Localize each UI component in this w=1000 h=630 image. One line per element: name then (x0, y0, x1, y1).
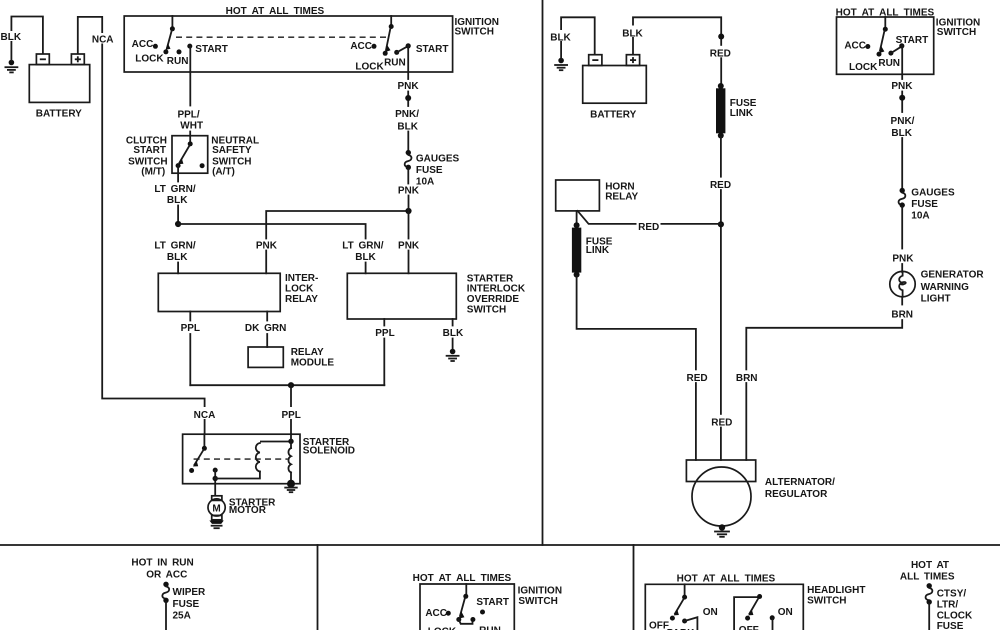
svg-text:GAUGES: GAUGES (416, 154, 460, 165)
wire (901, 92, 903, 113)
fuse link FL1 (716, 83, 725, 139)
wire override input LT GRN/BLK (365, 263, 367, 274)
separator horizontal bottom (0, 544, 1000, 546)
wire fuse to PNK label (407, 169, 409, 184)
svg-text:M: M (212, 503, 220, 514)
svg-text:ALTERNATOR/: ALTERNATOR/ (765, 477, 835, 488)
label RED net (710, 178, 733, 192)
label PPL net (279, 407, 303, 421)
ignition switch S1 right bank (372, 16, 411, 56)
ground G7 (alternator case) (715, 524, 729, 537)
wire horn feed to alternator (577, 276, 696, 460)
svg-text:RUN: RUN (479, 626, 501, 630)
label NCA net (91, 33, 114, 45)
alternator/regulator G6 (686, 460, 755, 526)
node splice (899, 95, 905, 101)
svg-text:BLK: BLK (167, 195, 188, 206)
wire NCA battery positive feed (78, 17, 205, 434)
wire bus LT GRN/BLK to override switch (178, 224, 366, 239)
wire clutch switch down (177, 166, 179, 182)
svg-text:ON: ON (703, 607, 718, 618)
wire START to clutch switch (189, 46, 191, 105)
dashed actuator line (194, 458, 288, 460)
node splice (405, 95, 411, 101)
wire START down (901, 46, 903, 79)
svg-text:BLK: BLK (622, 29, 643, 40)
wire BLK to ground (452, 339, 454, 351)
label RED net (637, 219, 661, 233)
wire into clutch switch (189, 132, 191, 144)
wire relay input PNK (265, 251, 267, 274)
wire solenoid contact to starter motor (214, 470, 216, 495)
svg-text:PNK: PNK (892, 254, 914, 265)
label RED net (710, 46, 732, 60)
svg-text:ACC: ACC (350, 41, 372, 52)
svg-text:RUN: RUN (167, 56, 189, 67)
lamp DS1 generator warning light (890, 271, 915, 296)
svg-text:FUSE: FUSE (911, 199, 938, 210)
svg-text:LT GRN/: LT GRN/ (154, 184, 195, 195)
label RED net (center) (710, 415, 733, 429)
starter solenoid L1 box (183, 434, 300, 484)
wire bus PPL (190, 384, 384, 386)
svg-text:LT GRN/: LT GRN/ (154, 241, 195, 252)
svg-text:RED: RED (638, 222, 659, 233)
dashed link line (176, 36, 389, 38)
wire relay input LT GRN/BLK (177, 263, 179, 274)
svg-text:BATTERY: BATTERY (590, 109, 636, 120)
node junction solenoid case (287, 480, 295, 488)
wire battery negative to ground (11, 17, 43, 62)
wire DK GRN to relay module (266, 334, 268, 347)
wire ctsy feed (928, 604, 930, 630)
svg-text:LINK: LINK (586, 245, 610, 256)
wire horn relay to RED bus (578, 211, 721, 224)
label BRN net (735, 370, 759, 384)
svg-text:START: START (416, 44, 449, 55)
svg-text:PPL: PPL (281, 410, 300, 421)
wire battery 2 negative to ground (561, 17, 595, 59)
headlight switch S6 bank A (670, 584, 698, 630)
wire fuse to warning light (901, 207, 903, 249)
wire battery 2 positive feed (633, 17, 721, 84)
wire override input PNK (408, 211, 410, 239)
node junction PPL at winding (288, 439, 293, 444)
fuse F4 CTSY/LTR/CLOCK (926, 583, 933, 605)
horn relay K2 box (556, 180, 600, 211)
svg-text:START: START (133, 145, 166, 156)
svg-text:FUSE: FUSE (173, 599, 200, 610)
svg-text:SWITCH: SWITCH (455, 27, 494, 38)
headlight switch S6 bank B (734, 594, 775, 630)
coil L1b hold-in winding (288, 448, 291, 472)
fuse F2 GAUGES 10A (899, 188, 906, 208)
svg-text:MOTOR: MOTOR (229, 505, 267, 516)
starter motor M1 (208, 496, 225, 520)
wire to junction (177, 206, 179, 225)
svg-text:RED: RED (711, 418, 732, 429)
wire BRN to alternator (746, 320, 902, 460)
svg-text:PPL: PPL (181, 323, 200, 334)
svg-text:PPL/: PPL/ (177, 110, 199, 121)
wire PPL junction to solenoid (290, 385, 292, 433)
wire to gauges fuse (407, 132, 409, 152)
svg-text:ON: ON (778, 607, 793, 618)
svg-text:OR ACC: OR ACC (146, 569, 187, 580)
wire START down to fuse (407, 46, 409, 79)
svg-text:LOCK: LOCK (849, 62, 878, 73)
node splice (718, 34, 724, 40)
svg-text:WIPER: WIPER (173, 587, 207, 598)
svg-text:(A/T): (A/T) (212, 167, 235, 178)
node junction PNK (405, 208, 411, 214)
svg-text:SAFETY: SAFETY (212, 145, 252, 156)
svg-text:DK GRN: DK GRN (245, 323, 286, 334)
svg-text:BLK: BLK (550, 33, 571, 44)
svg-text:RED: RED (710, 180, 731, 191)
ground G3 (solenoid case) (285, 488, 297, 493)
svg-text:SWITCH: SWITCH (937, 27, 976, 38)
ground G4 (starter motor) (209, 521, 223, 529)
svg-text:HOT AT ALL TIMES: HOT AT ALL TIMES (677, 574, 776, 585)
interlock relay K1 box (158, 273, 280, 311)
svg-text:BLK: BLK (355, 252, 376, 263)
svg-text:PNK: PNK (891, 81, 913, 92)
svg-text:RUN: RUN (384, 57, 406, 68)
label BLK net (622, 26, 644, 40)
node junction PPL (288, 382, 294, 388)
svg-text:NCA: NCA (194, 410, 216, 421)
label BLK net (550, 30, 572, 44)
svg-text:LOCK: LOCK (355, 62, 384, 73)
divider vertical center (542, 0, 544, 545)
svg-text:(M/T): (M/T) (141, 167, 165, 178)
clutch start switch S2 contacts (176, 141, 205, 168)
svg-text:START: START (195, 44, 228, 55)
node junction RED (718, 221, 724, 227)
svg-text:WARNING: WARNING (921, 282, 970, 293)
wire winding top link (261, 441, 291, 443)
svg-text:BRN: BRN (891, 310, 913, 321)
node junction LT GRN/BLK (175, 221, 181, 227)
svg-text:HOT AT: HOT AT (911, 560, 949, 571)
solenoid switch contacts (189, 434, 218, 473)
clutch start switch S2 box (172, 136, 208, 174)
svg-text:OFF: OFF (739, 625, 759, 630)
svg-text:GAUGES: GAUGES (911, 187, 955, 198)
ignition switch S4 contacts (865, 17, 904, 57)
svg-text:HOT IN RUN: HOT IN RUN (131, 558, 193, 569)
wire light to BRN (901, 297, 903, 305)
wire override output PPL (383, 319, 385, 326)
wire (407, 92, 409, 107)
svg-text:LOCK: LOCK (135, 53, 164, 64)
label RED net (685, 370, 708, 384)
svg-text:BLK: BLK (443, 328, 464, 339)
ignition switch S1 left bank (153, 16, 192, 54)
svg-text:ACC: ACC (132, 39, 154, 50)
svg-text:LINK: LINK (730, 108, 754, 119)
wire winding to case ground (290, 472, 292, 483)
svg-text:RELAY: RELAY (291, 347, 324, 358)
svg-text:BRN: BRN (736, 373, 758, 384)
svg-text:START: START (896, 35, 929, 46)
svg-text:LTR/: LTR/ (937, 600, 959, 611)
svg-text:10A: 10A (911, 211, 929, 222)
wire to gauges fuse (901, 138, 903, 189)
wire (901, 264, 903, 272)
label BLK net (1, 31, 22, 43)
wire override output BLK (452, 319, 454, 326)
svg-text:FUSE: FUSE (937, 621, 964, 630)
svg-text:RELAY: RELAY (605, 191, 638, 202)
ignition switch S4 box (837, 17, 934, 74)
wire PPL to bus (383, 339, 385, 386)
svg-text:GENERATOR: GENERATOR (921, 269, 985, 280)
svg-text:25A: 25A (173, 610, 191, 621)
svg-text:LIGHT: LIGHT (921, 294, 951, 305)
battery B1 (29, 54, 89, 102)
svg-text:ALL TIMES: ALL TIMES (900, 571, 955, 582)
wire winding return (215, 472, 260, 479)
svg-text:START: START (476, 597, 509, 608)
wire relay output DK GRN (266, 312, 268, 321)
svg-text:PNK: PNK (397, 81, 419, 92)
wire bus PNK to interlock relay (266, 211, 408, 239)
svg-text:BLK: BLK (1, 32, 22, 43)
fuse link FL2 (horn) (572, 222, 581, 277)
svg-text:SWITCH: SWITCH (807, 595, 846, 606)
ground G1 (battery negative) (5, 60, 17, 73)
svg-text:LT GRN/: LT GRN/ (342, 240, 383, 251)
svg-text:PNK/: PNK/ (395, 109, 419, 120)
svg-text:BLK: BLK (167, 252, 188, 263)
ground G5 (battery 2 negative) (555, 58, 567, 70)
wire PPL to bus (189, 334, 191, 385)
svg-text:LOCK: LOCK (428, 626, 457, 630)
svg-text:PPL: PPL (375, 328, 394, 339)
node junction pull-in winding return (213, 476, 218, 481)
divider bottom panel 2 (633, 545, 635, 630)
ignition switch S5 box (420, 584, 514, 630)
svg-text:SWITCH: SWITCH (518, 596, 557, 607)
coil L1a pull-in winding (256, 443, 260, 472)
starter interlock override switch S3 box (347, 273, 456, 319)
svg-text:RED: RED (687, 373, 708, 384)
svg-text:RED: RED (710, 48, 731, 59)
svg-text:CTSY/: CTSY/ (937, 588, 967, 599)
svg-text:WHT: WHT (180, 121, 203, 132)
ground G2 (override switch) (447, 349, 459, 361)
wire horn relay to fuse link (576, 211, 578, 224)
svg-text:CLOCK: CLOCK (937, 610, 973, 621)
divider bottom panel 1 (317, 545, 319, 630)
wire wiper feed (165, 602, 167, 630)
svg-text:SOLENOID: SOLENOID (303, 446, 355, 457)
svg-text:MODULE: MODULE (291, 358, 335, 369)
wire (408, 251, 410, 274)
wire PPL into box (290, 434, 292, 448)
label NCA net (at solenoid) (192, 407, 218, 421)
battery B2 (583, 55, 647, 103)
headlight switch S6 box (645, 584, 803, 630)
relay module U1 box (248, 347, 283, 367)
fuse F3 WIPER 25A (162, 582, 169, 603)
svg-text:REGULATOR: REGULATOR (765, 489, 828, 500)
wire fuse link down (720, 137, 722, 460)
wire relay output PPL (189, 312, 191, 321)
svg-text:ACC: ACC (425, 608, 447, 619)
svg-text:RUN: RUN (878, 58, 900, 69)
svg-text:ACC: ACC (844, 41, 866, 52)
svg-text:SWITCH: SWITCH (467, 304, 506, 315)
fuse F1 GAUGES 10A (405, 150, 412, 170)
svg-text:PNK/: PNK/ (891, 116, 915, 127)
svg-text:RELAY: RELAY (285, 294, 318, 305)
ignition switch S1 box (124, 16, 452, 72)
wire PNK label to junction (408, 196, 410, 212)
ignition switch S5 contacts (446, 584, 485, 624)
svg-text:INTERLOCK: INTERLOCK (467, 284, 526, 295)
svg-text:FUSE: FUSE (416, 165, 443, 176)
svg-text:BATTERY: BATTERY (36, 109, 82, 120)
svg-text:NCA: NCA (92, 34, 114, 45)
svg-text:HOT AT ALL TIMES: HOT AT ALL TIMES (413, 573, 512, 584)
